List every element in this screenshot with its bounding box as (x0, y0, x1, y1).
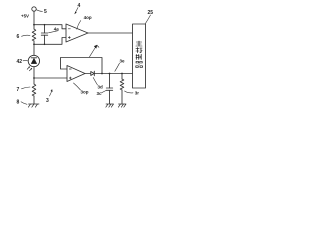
wire: op-amp 4op output to module box (88, 32, 133, 34)
leader to label 3r (125, 91, 134, 93)
leader to label 7 (22, 87, 31, 89)
label 4a (54, 26, 60, 31)
label 4 arrow (78, 3, 81, 9)
leader to label 4a (49, 31, 58, 33)
svg-text:7: 7 (17, 87, 20, 93)
svg-text:3e: 3e (120, 59, 126, 64)
svg-text:5: 5 (44, 9, 47, 15)
wire: diode 3d to module box (94, 73, 132, 75)
svg-text:3r: 3r (135, 90, 140, 95)
label 3d (98, 85, 104, 90)
label 3r (135, 90, 140, 95)
svg-text:4a: 4a (54, 26, 60, 31)
label 3c (97, 91, 103, 96)
op-amp 3op (67, 66, 85, 82)
leader to label 3d (93, 78, 97, 86)
svg-text:3op: 3op (81, 90, 89, 95)
wire: feedback loop of op-amp 3op (61, 58, 103, 74)
wire: node C to op-amp 3op non-inv input (34, 77, 67, 79)
node A junction dot (33, 24, 35, 26)
op-amp 4op minus pin mark (68, 28, 70, 30)
leader arrow for label 3 (50, 90, 53, 97)
label 42 (17, 59, 23, 65)
leader to label 3e (115, 63, 120, 71)
label 8 (17, 100, 20, 106)
label 25 (148, 10, 154, 16)
resistor 3r node dot (121, 73, 123, 75)
leader to label 6 (22, 35, 31, 36)
ground 8 (28, 104, 39, 107)
svg-text:+5V: +5V (21, 14, 29, 19)
label 3 arrow (46, 98, 49, 104)
resistor 7 (32, 84, 36, 96)
svg-text:42: 42 (17, 59, 23, 65)
label 4op (84, 15, 92, 20)
ground for capacitor 3c (106, 104, 114, 107)
op-amp 4op plus pin mark (68, 37, 70, 39)
junction dot cap 4a top (44, 24, 46, 26)
photodiode 42 light arrows (27, 67, 32, 71)
feedback label arrow (90, 48, 96, 57)
capacitor 3c (106, 88, 112, 90)
diode 3d (91, 72, 94, 76)
resistor 3r lead top (121, 74, 123, 80)
resistor 3r lead bottom (121, 90, 123, 104)
junction dot cap 4a bottom (44, 44, 46, 46)
svg-text:4op: 4op (84, 15, 92, 20)
op-amp 3op plus pin mark (69, 77, 71, 79)
node C junction dot (33, 77, 35, 79)
feedback node junction dot (101, 73, 103, 75)
svg-text:3d: 3d (98, 85, 104, 90)
photodiode 42 circle (28, 55, 39, 66)
wire: node A right to op-amp 4op non-inv input (with jog) (34, 25, 66, 29)
capacitor 4a lead bottom (44, 35, 46, 44)
wire: photodiode 42 to resistor 7 (33, 67, 35, 84)
wire: node B right to op-amp 4op inv input (with jog) (34, 38, 66, 45)
svg-text:8: 8 (17, 100, 20, 106)
resistor 6 (32, 29, 36, 41)
leader to label 8 (21, 102, 27, 105)
op-amp 3op minus pin mark (69, 68, 71, 70)
terminal 5 (+5V supply circle) (32, 7, 36, 11)
op-amp 4op (66, 24, 88, 42)
wire: op-amp 3op output to diode 3d (85, 73, 91, 75)
leader to label 3c (102, 91, 107, 93)
label +5V (21, 14, 29, 19)
capacitor 3c lead bottom (109, 90, 111, 104)
label 3op (81, 90, 89, 95)
module box 25 vertical text (drawn glyphs) (136, 41, 143, 67)
label 5 (44, 9, 47, 15)
photodiode 42 diode symbol (31, 57, 36, 59)
label 3e (120, 59, 126, 64)
svg-text:3c: 3c (97, 91, 103, 96)
capacitor 4a lead top (44, 25, 46, 33)
node B junction dot (33, 43, 35, 45)
wire: resistor 6 to photodiode 42 (33, 41, 35, 55)
leader to label 25 (145, 15, 150, 24)
capacitor 3c lead top (109, 74, 111, 89)
wire: resistor 7 to ground (33, 96, 35, 104)
svg-text:3: 3 (46, 98, 49, 104)
capacitor 3c node dot (109, 73, 111, 75)
module box 25 (133, 24, 146, 88)
leader to label 5 (37, 10, 43, 12)
leader to label 3op (74, 83, 81, 90)
wire: terminal 5 down to node A (33, 11, 35, 29)
svg-text:6: 6 (17, 34, 20, 40)
leader to label 42 (23, 59, 28, 61)
resistor 3r (120, 79, 124, 90)
label 6 (17, 34, 20, 40)
capacitor 4a (41, 33, 47, 35)
leader to label 4op (77, 21, 81, 30)
leader arrow for label 4 (75, 8, 78, 14)
label 7 (17, 87, 20, 93)
ground for resistor 3r (118, 104, 126, 107)
